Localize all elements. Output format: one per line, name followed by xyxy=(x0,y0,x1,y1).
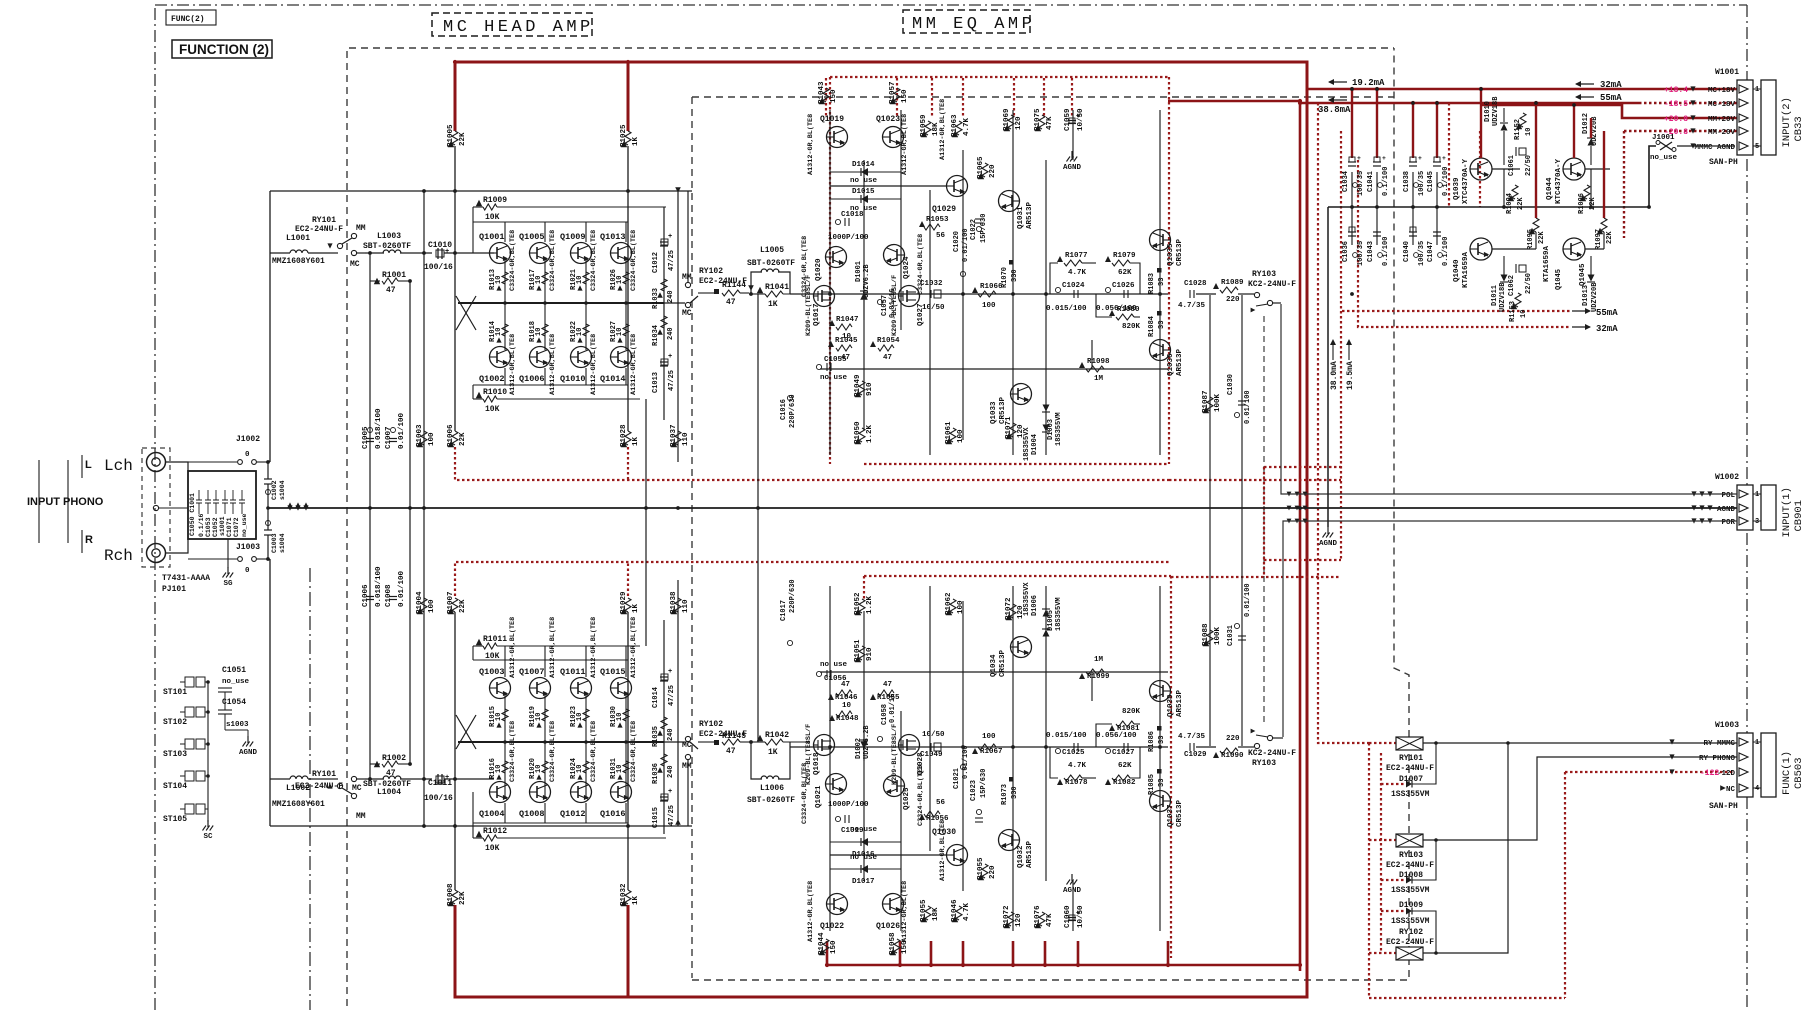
svg-text:10/50: 10/50 xyxy=(1077,905,1085,928)
connector W1002 xyxy=(1737,485,1753,530)
resistor R1027 xyxy=(623,324,629,336)
wire relay RY103 out xyxy=(1423,757,1737,840)
resistor R1008 xyxy=(452,890,458,904)
svg-text:CR513P: CR513P xyxy=(1176,799,1184,827)
svg-text:FUNC(2): FUNC(2) xyxy=(171,15,205,24)
svg-text:55mA: 55mA xyxy=(1600,93,1622,103)
svg-text:C1043: C1043 xyxy=(1367,241,1375,262)
svg-text:A1312-GR,BL(TE8: A1312-GR,BL(TE8 xyxy=(630,334,638,395)
capacitor C1012 xyxy=(660,241,668,243)
wire EQ out xyxy=(1196,293,1216,295)
svg-text:33: 33 xyxy=(1158,779,1166,787)
svg-text:KTC4370A-Y: KTC4370A-Y xyxy=(1555,158,1563,204)
svg-text:910: 910 xyxy=(866,382,874,396)
svg-text:1K: 1K xyxy=(632,136,640,146)
wire right block connections xyxy=(1492,168,1520,170)
resistor R1052 xyxy=(859,599,865,613)
svg-text:-18.5: -18.5 xyxy=(1664,100,1688,109)
supply dotted column stubs upper EQ xyxy=(825,78,827,116)
junction dots maroon bus xyxy=(453,60,457,64)
svg-text:Q1009: Q1009 xyxy=(560,232,586,242)
svg-text:PJ101: PJ101 xyxy=(162,585,186,594)
resistor R1058 xyxy=(894,939,900,953)
capacitor C1005 xyxy=(366,438,374,440)
svg-text:R1028: R1028 xyxy=(620,424,628,447)
resistor R1063 xyxy=(956,121,962,135)
resistor R1057 xyxy=(894,88,900,102)
svg-text:AGND: AGND xyxy=(1319,540,1338,548)
jack Rch xyxy=(147,544,166,563)
svg-text:Q1008: Q1008 xyxy=(519,809,545,819)
svg-text:22K: 22K xyxy=(1538,231,1546,244)
svg-text:K209-BL(TE8SL/F: K209-BL(TE8SL/F xyxy=(891,724,899,785)
svg-text:C1026: C1026 xyxy=(1112,282,1135,290)
pin MC-18V xyxy=(1739,99,1748,107)
resistor R1007 xyxy=(452,598,458,612)
svg-text:10: 10 xyxy=(1525,128,1533,136)
svg-text:INPUT(2): INPUT(2) xyxy=(1781,97,1793,147)
capacitor C1057 xyxy=(877,299,882,304)
svg-text:Q1007: Q1007 xyxy=(519,667,545,677)
svg-text:C3324-GR,BL(TE8: C3324-GR,BL(TE8 xyxy=(549,230,557,291)
svg-text:820K: 820K xyxy=(1122,323,1141,331)
resistor R1009 xyxy=(476,200,482,206)
svg-text:AGND: AGND xyxy=(1063,164,1082,172)
svg-text:C1045: C1045 xyxy=(1427,171,1435,192)
capacitor C1041 xyxy=(1373,161,1381,163)
svg-text:C1051: C1051 xyxy=(222,666,246,675)
svg-text:L1006: L1006 xyxy=(760,784,784,793)
svg-text:33: 33 xyxy=(1158,321,1166,329)
resistor R1024 xyxy=(583,761,589,773)
svg-text:220P/630: 220P/630 xyxy=(789,579,797,613)
svg-text:100: 100 xyxy=(428,599,436,613)
bowtie crossover xyxy=(456,715,476,749)
svg-text:R1035: R1035 xyxy=(652,726,660,747)
power bus +B top xyxy=(455,62,1307,997)
svg-text:10: 10 xyxy=(495,276,503,284)
svg-text:J1001: J1001 xyxy=(1652,134,1675,142)
svg-text:Q1018: Q1018 xyxy=(813,752,821,775)
resistor R1030 xyxy=(623,709,629,721)
wire supply to C1038 xyxy=(1412,103,1414,158)
svg-text:A1312-GR,BL(TE8: A1312-GR,BL(TE8 xyxy=(630,617,638,678)
svg-text:100: 100 xyxy=(428,432,436,446)
svg-text:R1097: R1097 xyxy=(1595,229,1603,250)
svg-text:D1017: D1017 xyxy=(852,878,875,886)
svg-text:KTA1659A: KTA1659A xyxy=(1462,251,1470,288)
svg-text:C1061: C1061 xyxy=(1508,155,1516,176)
svg-text:R1032: R1032 xyxy=(620,883,628,906)
svg-text:CB33: CB33 xyxy=(1793,116,1805,141)
svg-text:0.01/100: 0.01/100 xyxy=(398,412,406,449)
svg-text:100: 100 xyxy=(957,600,965,614)
svg-text:AR513P: AR513P xyxy=(1026,840,1034,868)
resistor R1026 xyxy=(623,272,629,284)
svg-text:R1041: R1041 xyxy=(765,283,789,292)
svg-text:1: 1 xyxy=(1755,491,1759,499)
transistor Q1007 xyxy=(530,678,551,699)
resistor R1014 xyxy=(502,324,508,336)
power bus drop R1025 xyxy=(627,62,630,131)
svg-text:C1019: C1019 xyxy=(841,827,864,835)
wire x678 vertical lower xyxy=(677,580,679,826)
capacitor C1038 xyxy=(1409,161,1417,163)
svg-text:Q1014: Q1014 xyxy=(600,374,626,384)
transistor Q1029 xyxy=(947,176,968,197)
svg-text:+: + xyxy=(668,788,672,796)
svg-text:1.2K: 1.2K xyxy=(866,595,874,614)
current label 55mA return xyxy=(1572,310,1590,312)
capacitor C1055 xyxy=(816,671,821,676)
svg-text:R1034: R1034 xyxy=(652,325,660,346)
svg-text:47/25: 47/25 xyxy=(668,370,676,391)
svg-text:no_use: no_use xyxy=(241,513,248,537)
svg-text:Q1005: Q1005 xyxy=(519,232,545,242)
ground AGND xyxy=(1327,527,1329,534)
svg-text:1K: 1K xyxy=(632,603,640,613)
svg-text:220P/630: 220P/630 xyxy=(789,394,797,428)
svg-text:+: + xyxy=(445,774,449,782)
svg-text:19.5mA: 19.5mA xyxy=(1346,361,1355,390)
svg-text:MC-18V: MC-18V xyxy=(1708,101,1736,109)
svg-text:C3324-GR,BL(TE8: C3324-GR,BL(TE8 xyxy=(630,230,638,291)
resistor R1042 xyxy=(757,735,763,741)
wire array rail xyxy=(473,206,483,208)
svg-text:Q1011: Q1011 xyxy=(560,667,586,677)
svg-text:R1033: R1033 xyxy=(652,288,660,309)
wire R1087 column to AGND xyxy=(1209,295,1211,508)
resistor R1022 xyxy=(583,324,589,336)
svg-text:C1006: C1006 xyxy=(362,584,370,607)
svg-text:32mA: 32mA xyxy=(1600,80,1622,90)
svg-text:+20.8: +20.8 xyxy=(1664,115,1688,124)
svg-text:Q1033: Q1033 xyxy=(990,401,998,424)
resistor R1025 xyxy=(625,131,631,145)
relay RY102 box xyxy=(1396,947,1423,960)
svg-text:C1056: C1056 xyxy=(824,675,847,683)
svg-text:33: 33 xyxy=(1158,278,1166,286)
svg-text:R1047: R1047 xyxy=(836,316,859,324)
svg-text:C1020: C1020 xyxy=(953,231,961,252)
svg-text:10: 10 xyxy=(576,765,584,773)
transistor Q1005 xyxy=(530,243,551,264)
inductor L1003 xyxy=(383,250,401,253)
svg-text:R1002: R1002 xyxy=(382,754,406,763)
resistor R1069 xyxy=(1008,115,1014,129)
transistor Q1016 xyxy=(611,782,632,803)
capacitor C1015 xyxy=(660,796,668,798)
svg-text:55mA: 55mA xyxy=(1596,308,1618,318)
diode D1014 xyxy=(861,168,868,176)
diode D1016 xyxy=(861,838,868,846)
wire array column xyxy=(585,742,587,799)
svg-text:R1043: R1043 xyxy=(818,81,826,104)
resistor R1031 xyxy=(623,761,629,773)
svg-text:R1083: R1083 xyxy=(1148,273,1156,294)
resistor R1061 xyxy=(950,428,956,442)
resistor R1054 xyxy=(870,341,876,347)
wire array column xyxy=(544,260,546,303)
svg-text:C1032: C1032 xyxy=(920,280,943,288)
svg-text:Q1012: Q1012 xyxy=(560,809,586,819)
svg-text:18S355VX: 18S355VX xyxy=(1023,427,1031,461)
relay RY103 xyxy=(1396,834,1423,847)
svg-text:33: 33 xyxy=(1158,736,1166,744)
capacitor C1036 xyxy=(1351,207,1353,245)
svg-text:R1051: R1051 xyxy=(854,639,862,662)
connector W1001 xyxy=(1737,80,1753,155)
inner dash-dot divider xyxy=(309,568,311,1010)
capacitor C1008 xyxy=(389,596,397,598)
svg-text:MMZ1608Y601: MMZ1608Y601 xyxy=(272,257,325,266)
svg-text:R1080: R1080 xyxy=(1117,306,1140,314)
inductor L1002 xyxy=(290,776,308,779)
svg-text:150: 150 xyxy=(830,89,838,103)
svg-text:Q1024: Q1024 xyxy=(903,256,911,279)
resistor R1029 xyxy=(625,598,631,612)
wire Lch to box xyxy=(165,462,188,471)
svg-text:Q1038: Q1038 xyxy=(1167,694,1175,717)
ground SG input xyxy=(227,539,229,568)
svg-text:INPUT: INPUT xyxy=(27,496,60,508)
wire EQ diode rail xyxy=(830,868,901,870)
capacitor C1002 s1004 xyxy=(264,478,272,480)
resistor R1043 xyxy=(823,88,829,102)
svg-text:C1015: C1015 xyxy=(652,807,660,828)
pin -12D xyxy=(1739,768,1748,776)
resistor R1087 xyxy=(1207,397,1213,411)
svg-text:C1016: C1016 xyxy=(780,399,788,420)
supply return dotted lower loop xyxy=(455,562,1169,596)
resistor R1070 xyxy=(1009,777,1014,782)
transistor Q1011 xyxy=(571,678,592,699)
wire input junction to AGND bus xyxy=(267,462,269,479)
svg-text:C1003: C1003 xyxy=(271,533,278,553)
current label 32mA top xyxy=(1576,83,1594,85)
svg-text:18K: 18K xyxy=(932,907,940,921)
svg-text:C1072: C1072 xyxy=(233,517,240,537)
svg-text:W1002: W1002 xyxy=(1715,473,1739,482)
svg-text:MMMC AGND: MMMC AGND xyxy=(1694,144,1735,152)
pin NC xyxy=(1739,784,1748,792)
transistor Q1044 xyxy=(1563,158,1585,180)
svg-text:SAN-PH: SAN-PH xyxy=(1709,158,1738,167)
svg-text:L1001: L1001 xyxy=(286,234,310,243)
svg-text:W1003: W1003 xyxy=(1715,721,1739,730)
svg-text:C3324-GR,BL(TE8: C3324-GR,BL(TE8 xyxy=(630,721,638,782)
pin AGND xyxy=(1739,504,1748,512)
svg-text:R1069: R1069 xyxy=(1003,108,1011,131)
transistor Q1022 xyxy=(827,894,848,915)
svg-text:D1013: D1013 xyxy=(1582,285,1590,306)
svg-text:C1036: C1036 xyxy=(1342,241,1350,262)
transistor Q1010 xyxy=(571,347,592,368)
svg-text:L: L xyxy=(85,459,92,471)
resistor R1066 xyxy=(972,748,978,754)
svg-text:22K: 22K xyxy=(459,132,467,146)
svg-text:D1001: D1001 xyxy=(855,261,863,282)
resistor R1050 xyxy=(859,428,865,442)
resistor R1152 xyxy=(1520,113,1526,127)
resistor R1047 xyxy=(829,715,835,721)
svg-text:Q1017: Q1017 xyxy=(813,303,821,326)
svg-text:C1060: C1060 xyxy=(1064,905,1072,928)
svg-text:150: 150 xyxy=(901,89,909,103)
svg-text:R1088: R1088 xyxy=(1202,623,1210,646)
resistor R1023 xyxy=(583,709,589,721)
wire EQ signal line xyxy=(790,293,1168,295)
svg-text:CR513P: CR513P xyxy=(999,649,1007,677)
svg-text:R1066: R1066 xyxy=(980,283,1003,291)
svg-text:4.7/35: 4.7/35 xyxy=(1178,733,1206,741)
svg-text:C1024: C1024 xyxy=(1062,282,1085,290)
svg-text:R1072: R1072 xyxy=(1005,597,1013,620)
svg-text:R1045: R1045 xyxy=(835,337,858,345)
svg-text:SBT-0260TF: SBT-0260TF xyxy=(747,259,795,268)
svg-text:0.1/100: 0.1/100 xyxy=(1382,237,1390,266)
svg-text:+: + xyxy=(1382,155,1386,162)
resistor R1038 xyxy=(675,598,681,612)
capacitor C1055 xyxy=(816,364,821,369)
svg-text:Q1021: Q1021 xyxy=(815,785,823,808)
transistor Q1040 xyxy=(1470,238,1492,260)
svg-text:MM: MM xyxy=(356,224,366,233)
svg-text:22K: 22K xyxy=(459,432,467,446)
transistor Q1026 xyxy=(883,894,904,915)
wire relay RY102 out xyxy=(1423,743,1508,953)
svg-text:R1053: R1053 xyxy=(926,216,949,224)
ground SG xyxy=(227,567,229,574)
svg-text:15P/630: 15P/630 xyxy=(980,769,988,798)
svg-text:1K: 1K xyxy=(632,895,640,905)
resistor R1053 xyxy=(919,221,925,227)
tick marks W1002 xyxy=(1691,491,1696,496)
svg-text:MM+20V: MM+20V xyxy=(1708,116,1736,124)
transistor Q1004 xyxy=(490,782,511,803)
tick marks W1003 xyxy=(1669,739,1674,744)
svg-text:330: 330 xyxy=(1011,269,1019,282)
svg-text:56: 56 xyxy=(936,232,946,240)
svg-text:RY101: RY101 xyxy=(1399,754,1423,763)
svg-text:10: 10 xyxy=(495,713,503,721)
svg-text:A1312-GR,BL(TE8: A1312-GR,BL(TE8 xyxy=(590,617,598,678)
transistor Q1017 xyxy=(814,286,835,307)
svg-text:A1312-GR,BL(TE8: A1312-GR,BL(TE8 xyxy=(590,334,598,395)
svg-text:240: 240 xyxy=(667,765,675,778)
svg-text:1.2K: 1.2K xyxy=(866,424,874,443)
svg-text:Q1015: Q1015 xyxy=(600,667,626,677)
svg-text:R1152: R1152 xyxy=(1514,119,1522,140)
diode D1015 xyxy=(861,195,868,203)
svg-text:NC: NC xyxy=(1726,786,1736,794)
svg-text:22K: 22K xyxy=(459,891,467,905)
svg-text:R1007: R1007 xyxy=(447,591,455,614)
transistor Q1031 xyxy=(999,191,1020,212)
resistor R1013 xyxy=(502,272,508,284)
current label 38.0mA xyxy=(1330,339,1336,345)
svg-text:C1023: C1023 xyxy=(970,780,978,801)
svg-text:D1004: D1004 xyxy=(1031,434,1039,455)
svg-text:C1062: C1062 xyxy=(1508,275,1516,296)
svg-text:C1053: C1053 xyxy=(205,517,212,537)
svg-text:R1008: R1008 xyxy=(447,883,455,906)
svg-text:EC2-24NU-F: EC2-24NU-F xyxy=(1386,938,1434,947)
svg-text:AR513P: AR513P xyxy=(1026,201,1034,229)
svg-text:CB901: CB901 xyxy=(1793,500,1805,532)
power bus MC-18V dotted to connector xyxy=(1639,102,1741,104)
svg-text:3: 3 xyxy=(1755,518,1759,526)
supply dotted right return to 55mA xyxy=(1342,310,1570,312)
svg-text:AR513P: AR513P xyxy=(1176,689,1184,717)
svg-text:Q1037: Q1037 xyxy=(1167,804,1175,827)
svg-text:C1050 C1001: C1050 C1001 xyxy=(189,493,196,536)
svg-text:Q1035: Q1035 xyxy=(1167,243,1175,266)
svg-text:no use: no use xyxy=(820,374,848,382)
resistor R1084 xyxy=(1157,726,1162,731)
svg-text:L1003: L1003 xyxy=(377,232,401,241)
svg-text:s1004: s1004 xyxy=(279,480,286,500)
resistor R1055 xyxy=(982,864,988,878)
svg-text:C1038: C1038 xyxy=(1403,171,1411,192)
svg-text:D1003: D1003 xyxy=(1047,419,1055,440)
svg-text:10K: 10K xyxy=(485,405,500,414)
svg-text:R1075: R1075 xyxy=(1034,108,1042,131)
svg-text:EC2-24NU-F: EC2-24NU-F xyxy=(295,782,343,791)
svg-text:Q1029: Q1029 xyxy=(932,205,956,214)
svg-text:MM-20V: MM-20V xyxy=(1708,129,1736,137)
svg-text:10K: 10K xyxy=(485,844,500,853)
wire POR xyxy=(1283,521,1737,737)
wire array collector stubs xyxy=(504,646,506,677)
terminal circle mid xyxy=(153,505,158,510)
transistor Q1003 xyxy=(490,678,511,699)
svg-text:C3324-GR,BL(TE8: C3324-GR,BL(TE8 xyxy=(590,721,598,782)
transistor Q1009 xyxy=(571,243,592,264)
svg-text:0.1/100: 0.1/100 xyxy=(1442,167,1450,196)
supply dotted relay feed xyxy=(1318,577,1369,743)
wire C1030 column to AGND xyxy=(1241,508,1243,746)
power bus drop R1032 xyxy=(627,905,630,997)
capacitor C1030 xyxy=(1234,412,1239,417)
wire vertical x424 xyxy=(423,191,425,826)
svg-text:R1087: R1087 xyxy=(1202,390,1210,413)
svg-text:10: 10 xyxy=(495,765,503,773)
svg-text:10: 10 xyxy=(616,713,624,721)
svg-text:C1005: C1005 xyxy=(362,426,370,449)
resistor R1036 xyxy=(661,754,667,766)
svg-text:+: + xyxy=(445,248,449,256)
pin MMMC AGND xyxy=(1739,142,1748,150)
pin MC+18V xyxy=(1739,85,1748,93)
supply return dotted upper loop xyxy=(455,447,1169,480)
svg-text:1M: 1M xyxy=(1094,375,1104,383)
svg-text:R1065: R1065 xyxy=(977,156,985,179)
diode D1017 xyxy=(861,865,868,873)
svg-text:C3324-GR,BL(TE8: C3324-GR,BL(TE8 xyxy=(509,721,517,782)
resistor R1049 xyxy=(859,381,865,395)
ground SC xyxy=(207,820,209,827)
svg-text:R1144: R1144 xyxy=(722,281,746,290)
svg-text:RY102: RY102 xyxy=(1399,928,1423,937)
svg-text:KC2-24NU-F: KC2-24NU-F xyxy=(1248,749,1296,758)
svg-text:R1153: R1153 xyxy=(1509,301,1517,322)
jack Lch xyxy=(147,453,166,472)
svg-text:Q1022: Q1022 xyxy=(820,922,844,931)
resistor R1054 xyxy=(870,694,876,700)
svg-text:RY103: RY103 xyxy=(1399,851,1423,860)
svg-text:R1058: R1058 xyxy=(889,932,897,955)
